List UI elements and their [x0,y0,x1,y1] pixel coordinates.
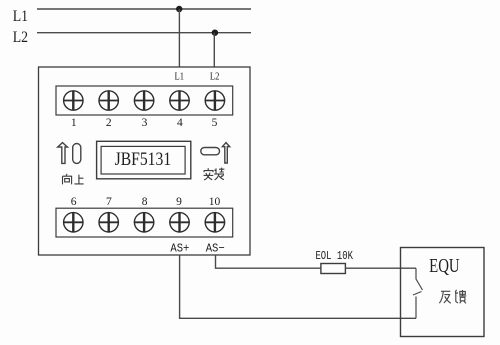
up-arrow icon (right) [222,143,229,163]
svg-text:2: 2 [106,117,112,129]
terminal strip top [56,86,233,115]
wire L2 drop to terminal 5 [213,33,215,67]
svg-text:L2: L2 [210,72,220,83]
wire AS+ to EQU [180,255,416,318]
terminal 8 [134,213,154,233]
module U1 JBF5131 outline [39,67,251,255]
junction dot on L1 [176,6,182,12]
svg-text:5: 5 [212,117,218,129]
switch (feedback contact) in EQU [416,268,423,290]
terminal 5 [205,91,225,111]
terminal 6 [63,213,83,233]
label 安装 (install) [204,168,225,180]
wire L1 power line [37,8,251,10]
svg-text:L1: L1 [13,8,28,25]
wire L1 drop to terminal 4 [178,9,180,67]
svg-text:AS−: AS− [206,242,225,256]
svg-text:8: 8 [142,196,148,208]
svg-text:1: 1 [71,117,77,129]
svg-text:9: 9 [176,196,182,208]
svg-text:EOL 10K: EOL 10K [315,249,353,263]
terminal strip bottom [56,208,233,237]
svg-text:3: 3 [142,117,148,129]
svg-text:4: 4 [177,117,183,129]
label 反馈 (feedback) [439,290,466,304]
wire resistor to EQU [345,267,416,269]
svg-text:10: 10 [209,196,221,208]
svg-text:7: 7 [106,196,112,208]
terminal 7 [99,213,119,233]
svg-text:L1: L1 [175,72,185,83]
terminal 4 [169,91,189,111]
terminal 10 [205,213,225,233]
label 向上 (up) [63,174,84,185]
terminal 1 [63,91,83,111]
wire AS- to resistor [216,255,321,268]
LED capsule (left) [73,144,81,164]
svg-text:AS+: AS+ [170,242,189,256]
svg-text:JBF5131: JBF5131 [115,149,172,170]
svg-text:EQU: EQU [429,255,460,277]
svg-text:6: 6 [71,196,77,208]
display window JBF5131 [97,141,191,179]
terminal 2 [99,91,119,111]
junction dot on L2 [212,30,218,36]
terminal 9 [169,213,189,233]
wire L2 power line [37,32,251,34]
up-arrow icon (left) [58,143,68,164]
resistor EOL 10K [321,264,346,274]
terminal 3 [134,91,154,111]
svg-text:L2: L2 [13,29,28,46]
device EQU box [401,248,485,337]
LED capsule (right) [201,148,220,155]
